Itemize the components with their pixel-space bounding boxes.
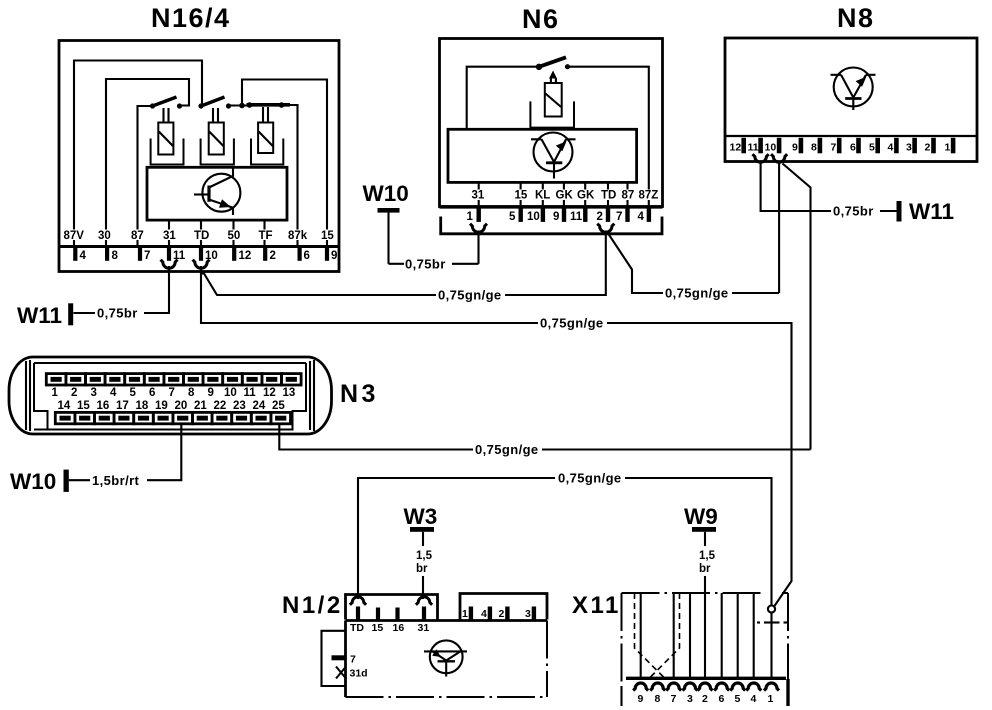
svg-text:2: 2 (597, 211, 603, 223)
svg-text:1: 1 (462, 608, 468, 620)
N1/2 connector bracket (TD 15 16 31) (346, 595, 438, 620)
svg-text:TD: TD (194, 230, 209, 242)
wire 0,75gn/ge N16/4 pin 10 to N6 pin 2 (201, 231, 606, 303)
relay module N6 title (522, 4, 560, 34)
svg-text:31d: 31d (350, 668, 368, 680)
svg-text:N8: N8 (837, 3, 875, 33)
control module N8 box (725, 38, 977, 162)
N1/2 module box (346, 621, 548, 698)
svg-text:11: 11 (570, 211, 583, 223)
N1/2 terminal TD socket and pin (350, 597, 366, 621)
svg-text:0,75gn/ge: 0,75gn/ge (665, 286, 729, 301)
svg-text:N16/4: N16/4 (151, 3, 231, 33)
socket under N16/4 pin 11 (161, 260, 178, 269)
svg-text:0,75gn/ge: 0,75gn/ge (558, 471, 622, 486)
N1/2 pin 1 (462, 607, 473, 621)
N8 pin row separator line (725, 135, 977, 137)
svg-text:15: 15 (321, 230, 334, 242)
ground W9 symbol (684, 504, 718, 593)
svg-text:W10: W10 (10, 469, 56, 494)
svg-text:17: 17 (116, 400, 129, 412)
svg-text:8: 8 (112, 250, 119, 262)
transistor in N6 (531, 133, 576, 179)
svg-text:1: 1 (467, 211, 474, 223)
N8 pin 2 (925, 138, 936, 154)
svg-text:15: 15 (515, 190, 528, 202)
wire 0,75gn/ge N16/4 pin 10 (TD) to junction riser (201, 274, 792, 607)
wire 0,75gn/ge N3 pin 25 to N8 pin 10 riser (279, 424, 810, 457)
svg-text:8: 8 (811, 142, 817, 154)
relay K1 coil (151, 108, 184, 165)
svg-text:1: 1 (52, 387, 59, 399)
wire N6 terminal 15 stub (pin 5) (520, 182, 522, 205)
N3 bottom pin row (pins 14-25) (55, 412, 290, 423)
svg-text:X11: X11 (572, 592, 621, 619)
X11 pin 3 wire (689, 593, 691, 677)
relay module N6 box (440, 39, 663, 207)
svg-text:3: 3 (525, 608, 531, 620)
svg-text:4: 4 (110, 387, 117, 399)
X11 pin 1 wire below junction (770, 613, 772, 677)
socket under N8 pin 11 (753, 154, 769, 162)
N3 top row numbers 1-13 (52, 387, 296, 399)
svg-text:87: 87 (622, 190, 635, 202)
N6 connector shell bracket (441, 217, 662, 234)
ground W3 symbol (404, 504, 438, 599)
N6 pin 1 (467, 208, 481, 223)
svg-text:7: 7 (169, 387, 175, 399)
wire 15 to relay K3 contact (terminal 9) (242, 80, 327, 246)
svg-text:W9: W9 (684, 504, 718, 529)
svg-text:20: 20 (175, 400, 188, 412)
N1/2 terminal 31 socket and pin (416, 597, 432, 621)
svg-text:10: 10 (527, 211, 540, 223)
N6 output stage box (448, 129, 637, 182)
svg-text:13: 13 (283, 387, 296, 399)
svg-text:TF: TF (259, 230, 273, 242)
X11 socket 4 (746, 683, 761, 691)
X11 socket 5 (730, 683, 745, 691)
svg-text:9: 9 (792, 142, 798, 154)
svg-text:9: 9 (208, 387, 214, 399)
svg-text:30: 30 (98, 230, 111, 242)
svg-text:GK: GK (577, 190, 595, 202)
svg-text:87V: 87V (64, 230, 85, 242)
N16/4 pin 2 (263, 248, 276, 262)
svg-text:12: 12 (263, 387, 276, 399)
svg-text:1: 1 (768, 693, 774, 705)
N6 pin 10 (527, 208, 545, 223)
control module N16/4 title (151, 3, 231, 33)
N16/4 pin 10 (199, 248, 218, 262)
N16/4 pin 6 (298, 248, 310, 262)
svg-text:4: 4 (888, 142, 894, 154)
connector X11 title (572, 592, 621, 619)
svg-text:W11: W11 (17, 303, 62, 328)
svg-text:0,75gn/ge: 0,75gn/ge (540, 316, 604, 331)
transistor in N1/2 (424, 640, 467, 676)
svg-text:4: 4 (638, 211, 645, 223)
N6 pin 2 (597, 208, 611, 223)
socket under N8 pin 10 (771, 154, 787, 162)
X11 dashed variant wire left (635, 593, 664, 677)
socket under N6 pin 1 (470, 224, 487, 233)
svg-text:3: 3 (906, 142, 912, 154)
svg-text:25: 25 (272, 400, 285, 412)
wire 0,75gn/ge junction to N1/2 terminal TD (358, 471, 772, 606)
svg-text:6: 6 (850, 142, 856, 154)
control module N8 title (837, 3, 875, 33)
transistor in N8 (831, 68, 876, 111)
svg-text:31: 31 (418, 622, 430, 634)
svg-text:5: 5 (869, 142, 875, 154)
svg-text:12: 12 (239, 250, 252, 262)
X11 socket 7 (666, 683, 681, 691)
N8 pin 5 (869, 138, 880, 154)
X11 socket 2 (698, 683, 713, 691)
X11 socket 3 (683, 683, 698, 691)
N1/2 terminal labels TD 15 16 31 (350, 622, 429, 634)
N6 pin 7 (616, 208, 630, 223)
wire 0,75br from N8 pin 11 to W11 (right) (761, 162, 897, 219)
svg-text:16: 16 (393, 622, 405, 634)
ground W10 (lower) symbol (10, 469, 69, 494)
wire N16/4 pin 11 to W11 (left) 0,75br (74, 266, 170, 321)
control module N1/2 title (282, 592, 343, 619)
svg-text:6: 6 (149, 387, 155, 399)
svg-text:10: 10 (765, 142, 777, 154)
N16/4 pin 7 (138, 248, 151, 262)
ground W11 (left) symbol (17, 303, 73, 328)
N8 pin 7 (831, 138, 842, 154)
N6 internal wire left (terminal 31 side to switch) (467, 67, 538, 130)
connector N3 shell (9, 357, 332, 434)
X11 socket 8 (650, 683, 665, 691)
svg-text:21: 21 (194, 400, 207, 412)
X11 pin 2 wire (from W9) (704, 593, 706, 677)
svg-text:2: 2 (702, 693, 708, 705)
wire N6 terminal KL stub (pin 10) (542, 182, 544, 205)
N8 pin 1 (945, 138, 956, 154)
X11 pin 4 wire (753, 593, 755, 677)
svg-text:TD: TD (601, 190, 616, 202)
N1/2 terminal 7 (332, 654, 357, 666)
svg-text:87k: 87k (288, 230, 308, 242)
svg-text:0,75br: 0,75br (833, 204, 874, 219)
N8 pin 12 (730, 138, 747, 154)
socket under N6 pin 2 (597, 224, 614, 233)
wire N6 terminal GK stub (pin 9) (563, 182, 565, 205)
svg-text:1,5: 1,5 (699, 550, 716, 562)
svg-text:KL: KL (535, 190, 550, 202)
svg-text:2: 2 (270, 250, 276, 262)
relay K3 switch bar (closed contact) (247, 102, 291, 108)
wire 1,5br/rt from W10 (lower) to N3 pin 20 (69, 424, 182, 488)
svg-text:7: 7 (671, 693, 677, 705)
svg-text:31: 31 (163, 230, 176, 242)
wire 87V to relay K2 contact (terminal 4) (74, 61, 202, 246)
N1/2 connector bracket (1 4 2 3) (460, 594, 547, 620)
svg-text:11: 11 (244, 387, 257, 399)
svg-text:5: 5 (509, 211, 516, 223)
relay K2 coil (201, 108, 234, 165)
svg-text:N1/2: N1/2 (282, 592, 343, 619)
svg-text:2: 2 (499, 608, 505, 620)
N16/4 pin 11 (167, 248, 186, 262)
X11 pin 6 wire (721, 593, 723, 677)
control module N16/4 outer box (59, 41, 339, 272)
svg-text:br: br (699, 563, 711, 575)
svg-text:N6: N6 (522, 4, 560, 34)
svg-text:7: 7 (350, 654, 356, 666)
N6 relay actuator arrow (549, 71, 557, 84)
N1/2 left connector bracket (322, 631, 346, 686)
wire N6 terminal 87 stub (pin 7) (626, 182, 628, 205)
wire N6 terminal TD stub (pin 2) (607, 182, 609, 205)
N6 terminal labels (469, 190, 661, 202)
transistor in N16/4 (194, 167, 240, 215)
svg-text:0,75gn/ge: 0,75gn/ge (438, 288, 502, 303)
svg-text:4: 4 (481, 608, 487, 620)
svg-text:9: 9 (553, 211, 559, 223)
X11 socket 9 (633, 683, 648, 691)
X11 socket 6 (714, 683, 729, 691)
N8 pin 9 (792, 138, 803, 154)
svg-text:15: 15 (77, 400, 90, 412)
N3 top pin row (pins 1-13) (46, 374, 301, 385)
svg-text:5: 5 (735, 693, 741, 705)
svg-text:0,75br: 0,75br (405, 257, 446, 272)
svg-text:10: 10 (224, 387, 237, 399)
N16/4 output stage box (147, 167, 287, 220)
N8 pin 4 (888, 138, 899, 154)
svg-text:W3: W3 (404, 504, 438, 529)
svg-text:1,5: 1,5 (416, 550, 433, 562)
svg-text:br: br (416, 563, 428, 575)
svg-text:24: 24 (253, 400, 266, 412)
svg-text:87: 87 (131, 230, 144, 242)
svg-text:16: 16 (97, 400, 110, 412)
N6 pin 4 (638, 208, 652, 223)
N16/4 pin 4 (73, 248, 86, 262)
wire 30 to relay K1 contact (terminal 8) (106, 79, 189, 246)
X11 terminal bar (626, 677, 786, 680)
relay K3 coil (251, 107, 283, 165)
wire 87k from relay K3 (terminal 6) (290, 105, 298, 246)
svg-text:12: 12 (730, 142, 742, 154)
ground W10 (upper) symbol (363, 181, 409, 264)
wire terminal TD stub (pin 10) (200, 220, 202, 245)
X11 pin 7 wire (673, 593, 675, 677)
wire terminal TF stub (pin 2) (263, 220, 265, 245)
X11 pin 9 wire (640, 593, 642, 677)
relay K2 switch arm (198, 97, 248, 109)
N6 internal wire right (switch to terminal 87Z) (568, 67, 649, 206)
wire terminal 50 stub (pin 12) (232, 220, 234, 245)
svg-text:1: 1 (945, 142, 951, 154)
svg-text:0,75gn/ge: 0,75gn/ge (475, 442, 539, 457)
N16/4 pin 8 (105, 248, 119, 262)
N8 pin 6 (850, 138, 861, 154)
svg-text:1,5br/rt: 1,5br/rt (92, 473, 140, 488)
connector N3 title (340, 380, 379, 408)
svg-text:23: 23 (233, 400, 246, 412)
N1/2 pin 2 (499, 607, 510, 621)
wire 0,75br from W10 to N6 pin 1 (389, 231, 479, 272)
svg-text:7: 7 (616, 211, 622, 223)
svg-text:0,75br: 0,75br (97, 306, 138, 321)
svg-text:TD: TD (350, 622, 364, 634)
N16/4 pin 12 (232, 248, 251, 262)
svg-text:9: 9 (331, 250, 337, 262)
svg-text:6: 6 (719, 693, 725, 705)
wire N8 pin 10 diagonal to riser (783, 164, 811, 450)
N1/2 terminal 15 pin (376, 608, 380, 621)
N8 pin 10 (765, 138, 782, 154)
wire 87 to relay K1 arm (terminal 7) (138, 106, 153, 246)
svg-text:22: 22 (214, 400, 227, 412)
N6 pin 11 (570, 208, 588, 223)
connector X11 dash-dot outline (622, 593, 789, 706)
wire N6 terminal GK stub (pin 11) (584, 182, 586, 205)
socket under N16/4 pin 10 (193, 260, 210, 269)
svg-text:W10: W10 (363, 181, 409, 206)
X11 pin numbers (638, 693, 774, 705)
svg-text:8: 8 (655, 693, 661, 705)
svg-text:7: 7 (144, 250, 150, 262)
svg-text:11: 11 (748, 142, 759, 154)
svg-text:50: 50 (228, 230, 241, 242)
svg-text:87Z: 87Z (639, 190, 659, 202)
N1/2 pin 3 (525, 607, 536, 621)
junction circle above X11 pin 1 (768, 605, 775, 612)
N6 terminal strip line (440, 205, 663, 208)
svg-text:3: 3 (687, 693, 693, 705)
svg-text:GK: GK (556, 190, 574, 202)
svg-text:2: 2 (71, 387, 77, 399)
N8 pin 8 (811, 138, 822, 154)
wire 0,75gn/ge N6 pin 2 to N8 pin 10 (608, 233, 780, 301)
svg-text:N3: N3 (340, 380, 379, 408)
N3 bottom row numbers 14-25 (58, 400, 286, 412)
svg-text:31: 31 (472, 190, 485, 202)
svg-text:8: 8 (188, 387, 195, 399)
N16/4 terminal labels (62, 230, 334, 243)
X11 dashed variant wire right (651, 593, 680, 677)
N6 pin 5 (509, 208, 523, 223)
svg-text:6: 6 (304, 250, 310, 262)
svg-text:7: 7 (831, 142, 837, 154)
N1/2 terminal 16 pin (395, 608, 399, 621)
svg-text:5: 5 (130, 387, 137, 399)
N8 pin 11 (748, 138, 763, 154)
wire N8 pin 10 down (0,75gn/ge to N6 pin 2) (778, 162, 780, 294)
svg-text:W11: W11 (909, 199, 954, 224)
svg-text:3: 3 (91, 387, 97, 399)
N1/2 terminal 31d (336, 667, 368, 680)
svg-text:4: 4 (80, 250, 87, 262)
svg-text:9: 9 (638, 693, 644, 705)
N6 relay switch arm (536, 57, 570, 70)
wire N6 terminal 31 stub (pin 1) (478, 182, 480, 205)
N8 pin 3 (906, 138, 917, 154)
svg-text:19: 19 (155, 400, 168, 412)
N6 pin 9 (553, 208, 566, 223)
svg-text:4: 4 (751, 693, 757, 705)
svg-text:15: 15 (372, 622, 384, 634)
svg-text:14: 14 (58, 400, 71, 412)
X11 socket 1 (764, 683, 779, 691)
N1/2 pin 4 (481, 607, 492, 621)
N16/4 terminal strip line (59, 245, 339, 248)
svg-text:18: 18 (136, 400, 149, 412)
svg-text:2: 2 (925, 142, 931, 154)
N6 relay coil (530, 83, 574, 128)
X11 pin 5 wire (737, 593, 739, 677)
ground W11 (right) symbol (897, 199, 955, 224)
relay K1 switch arm (150, 97, 182, 109)
N16/4 pin 9 (325, 248, 338, 262)
wire terminal 31 stub (pin 11) (168, 220, 170, 245)
